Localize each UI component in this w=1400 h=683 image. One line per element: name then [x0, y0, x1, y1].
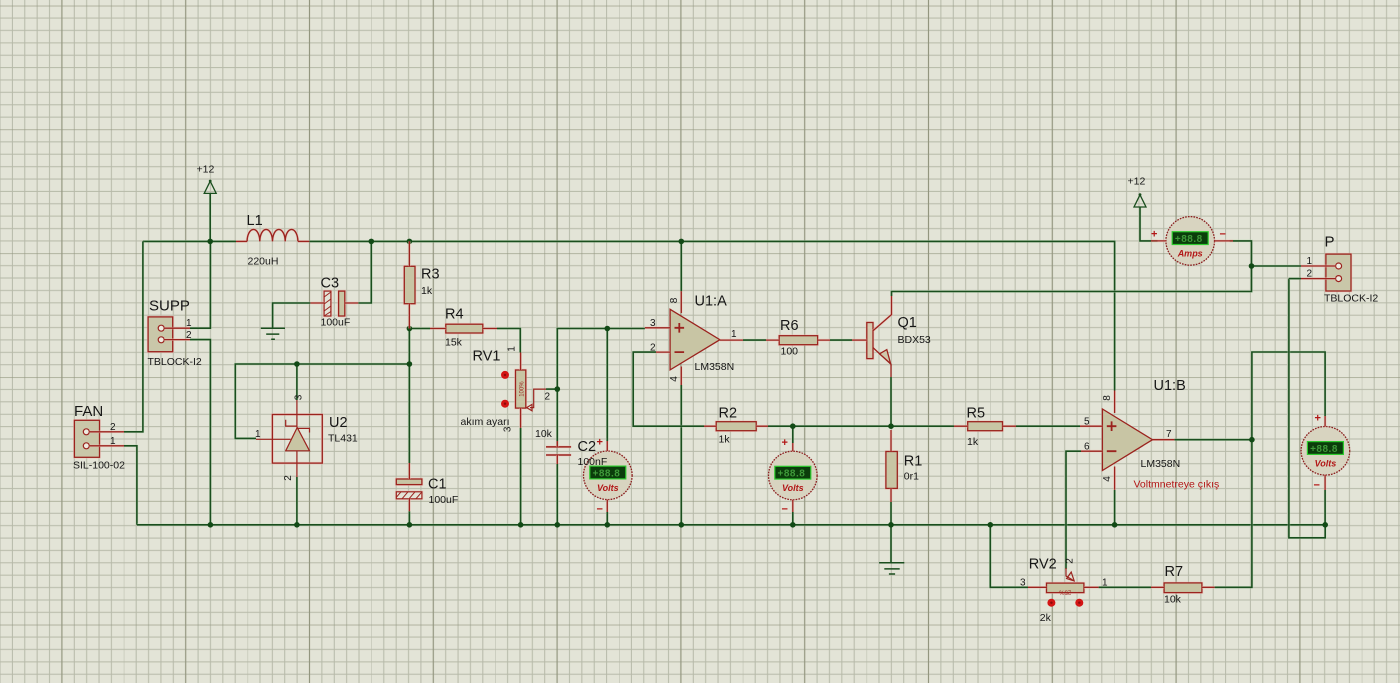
junction rail U1:B pin4	[1112, 522, 1118, 528]
capacitor C1 plain plate	[396, 479, 422, 485]
svg-text:3: 3	[503, 426, 514, 432]
wire: U1:B output to node	[1174, 438, 1252, 441]
capacitor C1 leads	[408, 463, 411, 511]
resistor R1 body	[886, 452, 897, 489]
potentiometer RV1 adjust dots	[501, 371, 509, 408]
wire: RV2 pin 1 to R7	[1099, 586, 1151, 589]
instrument voltmeter VM3 LCD	[1307, 442, 1343, 455]
svg-text:P: P	[1325, 233, 1335, 250]
svg-text:4: 4	[1102, 476, 1113, 482]
svg-text:C2: C2	[578, 439, 597, 455]
wire: RV1 wiper to C2 net	[546, 388, 557, 391]
capacitor C3 plain plate	[339, 291, 345, 316]
wire: left branch down to FAN pin 2	[124, 241, 143, 431]
wire: U1:B pin 4 drop to ground rail	[1113, 490, 1116, 525]
connector P body	[1326, 254, 1351, 291]
svg-text:3: 3	[650, 318, 656, 329]
svg-text:100uF: 100uF	[429, 494, 459, 506]
wire: RV1 pin 3 drop to ground rail	[519, 428, 522, 525]
resistor R4 body	[446, 324, 483, 333]
instrument voltmeter VM1 LCD	[590, 466, 626, 479]
resistor R2 body	[716, 422, 756, 431]
svg-text:FAN: FAN	[74, 403, 103, 420]
junction rail SUPP2	[208, 522, 214, 528]
svg-text:−: −	[1314, 479, 1320, 491]
op-amp U1:A pin leads	[645, 291, 743, 385]
wire: FAN pin 1 to ground rail	[124, 446, 137, 525]
instrument voltmeter VM3 body	[1301, 427, 1350, 476]
junction U1:B output node	[1249, 437, 1255, 443]
wire: Amps minus to P pin 1 node	[1230, 241, 1252, 266]
resistor R7 body	[1164, 583, 1202, 593]
svg-text:TL431: TL431	[328, 432, 358, 444]
svg-text:2k: 2k	[1040, 612, 1052, 624]
svg-text:10k: 10k	[535, 428, 553, 440]
power +12 left symbol	[204, 180, 216, 194]
svg-text:100nF: 100nF	[578, 456, 608, 468]
connector FAN pin leads	[89, 432, 124, 446]
junction R3 top rail	[407, 239, 413, 245]
svg-text:U1:B: U1:B	[1154, 378, 1186, 394]
svg-text:Volts: Volts	[782, 483, 804, 493]
svg-text:SIL-100-02: SIL-100-02	[73, 460, 125, 472]
wire: C3 right lead riser to top rail	[358, 241, 371, 303]
svg-text:+88.8: +88.8	[593, 468, 621, 479]
resistor R7 leads	[1151, 586, 1215, 589]
wire: R6 right to Q1 base	[830, 339, 852, 342]
ground symbol near C3	[261, 328, 285, 339]
resistor R1 leads	[890, 430, 893, 502]
junction rail VM3/P2	[1322, 522, 1328, 528]
svg-text:1k: 1k	[719, 433, 731, 445]
junction rail VM2	[790, 522, 796, 528]
svg-text:RV1: RV1	[473, 349, 501, 365]
junction VM1 riser on pin3 net	[605, 326, 611, 332]
wire: U1:B output up-over to VM3 plus	[1252, 352, 1325, 440]
wire: C1 bottom to ground rail	[408, 511, 411, 525]
junction Q1 emitter/R1/R5	[888, 423, 894, 429]
wire: Q1 emitter drop to shunt node	[890, 377, 893, 426]
svg-text:LM358N: LM358N	[695, 361, 735, 373]
connector FAN pin circles	[83, 429, 89, 449]
capacitor C3 hatched plate	[324, 291, 331, 316]
potentiometer RV2 body	[1047, 583, 1084, 593]
resistor R5 leads	[954, 425, 1016, 428]
wire: SUPP pin 1 riser	[190, 241, 210, 328]
resistor R3 leads	[408, 241, 411, 328]
junction rail C1	[407, 522, 413, 528]
svg-text:R7: R7	[1165, 564, 1184, 580]
svg-text:1: 1	[255, 429, 261, 440]
junction U2 net / C1 column	[407, 361, 413, 367]
svg-text:+: +	[1315, 413, 1321, 425]
svg-text:+: +	[782, 437, 788, 449]
wire: VM2 bottom to ground rail	[791, 512, 794, 525]
capacitor C1 hatched plate	[396, 492, 422, 499]
wire: +12 right stem to Amps plus	[1140, 207, 1158, 241]
svg-text:Q1: Q1	[898, 315, 917, 331]
svg-text:3: 3	[294, 394, 305, 400]
svg-text:2: 2	[1065, 558, 1076, 564]
svg-text:1k: 1k	[421, 285, 433, 297]
svg-text:R5: R5	[967, 406, 986, 422]
wire: top rail from L1 to U1:B pin 8 drop	[309, 241, 1114, 390]
connector SUPP pin leads	[164, 328, 190, 339]
resistor R2 leads	[704, 425, 768, 428]
junction rail VM1	[605, 522, 611, 528]
svg-text:−: −	[782, 504, 788, 516]
svg-text:RV2: RV2	[1029, 556, 1057, 572]
wire: U1:A output to R6	[743, 339, 766, 342]
wire: U1:B pin 6 to RV2 wiper	[1066, 451, 1081, 569]
junction RV1 wiper / C2 column	[555, 386, 561, 392]
svg-text:1: 1	[110, 436, 116, 447]
capacitor C3 leads	[310, 302, 358, 305]
svg-text:0r1: 0r1	[904, 470, 919, 482]
resistor R4 leads	[430, 327, 497, 330]
svg-text:100uF: 100uF	[321, 317, 351, 329]
ground symbol below R1	[879, 563, 904, 574]
wire: R5 right to U1:B pin 5	[1016, 425, 1080, 428]
svg-text:Amps: Amps	[1177, 248, 1203, 258]
svg-text:+88.8: +88.8	[1310, 444, 1338, 455]
instrument voltmeter VM2 body	[769, 451, 818, 500]
op-amp U1:A polarity marks	[675, 323, 685, 352]
svg-text:Volts: Volts	[597, 483, 619, 493]
capacitor C2 leads	[556, 441, 559, 464]
regulator U2 box	[272, 415, 322, 464]
potentiometer RV1 wiper arrow	[527, 389, 546, 411]
junction R2/VM2	[790, 423, 796, 429]
inductor L1	[236, 229, 309, 241]
svg-text:10k: 10k	[1164, 593, 1182, 605]
wire: R4 right to RV1 pin 1	[497, 329, 520, 353]
transistor Q1 base bar	[867, 323, 873, 359]
svg-text:2: 2	[110, 422, 116, 433]
svg-text:1: 1	[507, 346, 518, 352]
svg-text:1k: 1k	[967, 436, 979, 448]
junction U2 cathode/ref	[294, 361, 300, 367]
svg-text:2: 2	[186, 330, 192, 341]
wire: P pin 2 lead green part	[1289, 277, 1301, 280]
instrument voltmeter VM2 LCD	[775, 466, 811, 479]
junction rail R1/ground	[888, 522, 894, 528]
svg-text:R4: R4	[445, 306, 464, 322]
svg-text:−: −	[597, 504, 603, 516]
svg-text:Voltmnetreye çıkış: Voltmnetreye çıkış	[1134, 478, 1220, 490]
wire: C2 bottom to ground rail	[556, 464, 559, 525]
wire: U2 ref feedback loop	[235, 364, 297, 438]
potentiometer RV1 leads	[519, 353, 522, 428]
svg-text:TBLOCK-I2: TBLOCK-I2	[148, 356, 202, 368]
svg-text:+: +	[1151, 228, 1157, 240]
voltmeter VM3 terminal leads	[1324, 416, 1327, 490]
wire: node to P pin 1	[1252, 265, 1302, 268]
wire: R4 left lead to R3 net	[409, 327, 430, 330]
wire: R7 right riser to U1:B output node	[1215, 440, 1252, 588]
svg-text:TBLOCK-I2: TBLOCK-I2	[1324, 293, 1378, 305]
wire: C3 left lead to ground	[273, 303, 311, 328]
svg-text:2: 2	[283, 475, 294, 481]
wire: R3 bottom to R4 node	[408, 329, 411, 365]
voltmeter VM1 terminal leads	[606, 441, 609, 512]
svg-text:7: 7	[1166, 429, 1172, 440]
resistor R5 body	[968, 422, 1003, 431]
svg-text:+: +	[597, 437, 603, 449]
op-amp U1:B body	[1102, 409, 1152, 471]
wire: bottom ground rail	[137, 523, 1325, 526]
power +12 right symbol	[1134, 193, 1146, 207]
svg-text:C3: C3	[321, 276, 340, 292]
svg-text:akım ayarı: akım ayarı	[461, 416, 510, 428]
svg-text:L1: L1	[247, 213, 263, 229]
resistor R3 body	[404, 266, 415, 303]
wire: C1 top lead	[408, 364, 411, 463]
resistor R6 leads	[766, 339, 830, 342]
wire: VM1 bottom to ground rail	[606, 512, 609, 525]
wire: +12 symbol stem	[209, 193, 212, 241]
instrument ammeter AM1 body	[1166, 217, 1215, 266]
wire: RV2 pin 3 to ground rail	[990, 525, 1028, 588]
svg-text:−: −	[1220, 229, 1226, 241]
svg-text:25%: 25%	[1059, 588, 1072, 594]
svg-text:U1:A: U1:A	[695, 294, 728, 310]
svg-text:100%: 100%	[520, 381, 526, 397]
connector SUPP body	[148, 317, 173, 352]
wire: C2 net riser and U1:A pin3 feed	[557, 329, 645, 447]
wire: R2 right to VM2 node and R5	[768, 425, 954, 428]
svg-text:1: 1	[1102, 577, 1108, 588]
regulator U2 TL431 symbol	[256, 400, 310, 477]
wire: SUPP pin 2 drop to ground rail	[190, 340, 210, 525]
svg-text:220uH: 220uH	[248, 256, 279, 268]
svg-text:2: 2	[545, 392, 551, 403]
wire: +12 top rail from +12/SUPP node to L1	[143, 240, 236, 243]
svg-text:8: 8	[1102, 395, 1113, 401]
junction +12/L1/SUPP1	[207, 239, 213, 245]
junction U1:A pin8 top rail	[679, 239, 685, 245]
ammeter AM1 terminal leads	[1151, 240, 1233, 243]
svg-text:1: 1	[731, 329, 737, 340]
junction rail RV1 pin3	[518, 522, 524, 528]
transistor Q1 emitter with arrow	[873, 348, 891, 377]
potentiometer RV2 adjust dots	[1047, 599, 1083, 607]
junction rail C2	[555, 522, 561, 528]
svg-text:Volts: Volts	[1315, 458, 1337, 468]
svg-text:SUPP: SUPP	[149, 298, 190, 315]
wire: Q1 collector run to P/Amps node	[892, 266, 1252, 296]
svg-text:100: 100	[781, 346, 799, 358]
wire: VM2 top lead	[791, 426, 794, 443]
svg-text:5: 5	[1084, 416, 1090, 427]
junction rail U2 anode	[294, 522, 300, 528]
svg-text:3: 3	[1020, 577, 1026, 588]
wire: U1:A pin 2 feedback to R2	[633, 352, 704, 426]
junction rail U1:A pin4	[679, 522, 685, 528]
svg-text:R3: R3	[421, 267, 440, 283]
wire: U1:A pin 8 riser to top rail	[680, 241, 683, 291]
op-amp U1:B polarity marks	[1107, 421, 1117, 451]
connector SUPP pin circles	[158, 325, 164, 343]
svg-text:1: 1	[1307, 256, 1313, 267]
svg-text:2: 2	[650, 342, 656, 353]
wire: VM3 minus to ground rail node	[1324, 490, 1327, 525]
voltmeter VM2 terminal leads	[791, 443, 794, 512]
svg-text:8: 8	[669, 297, 680, 303]
junction Amps/P pin1/collector	[1249, 263, 1255, 269]
connector P pin circles	[1336, 263, 1342, 282]
wire: U2 cathode riser	[297, 364, 410, 400]
instrument ammeter AM1 LCD	[1172, 232, 1208, 245]
svg-text:+88.8: +88.8	[1175, 234, 1203, 245]
op-amp U1:A body	[670, 309, 720, 370]
svg-text:C1: C1	[428, 477, 447, 493]
junction R3/R4	[407, 326, 413, 332]
instrument voltmeter VM1 body	[584, 451, 633, 500]
svg-text:R2: R2	[719, 406, 738, 422]
wire: ground rail hook to P pin 2 riser	[1289, 279, 1325, 538]
potentiometer RV1 body	[516, 370, 526, 408]
wire: U1:A pin 4 drop to ground rail	[680, 385, 683, 525]
capacitor C2 plates	[546, 447, 571, 455]
junction rail RV2 drop	[988, 522, 994, 528]
svg-text:LM358N: LM358N	[1141, 458, 1181, 470]
svg-text:15k: 15k	[445, 336, 463, 348]
wire: R1 bottom to ground symbol	[890, 502, 893, 562]
svg-text:+12: +12	[197, 164, 215, 176]
transistor Q1 base lead	[852, 339, 867, 342]
svg-text:R6: R6	[780, 318, 799, 334]
op-amp U1:B pin leads	[1080, 391, 1174, 490]
svg-text:6: 6	[1084, 441, 1090, 452]
svg-text:2: 2	[1307, 268, 1313, 279]
svg-text:R1: R1	[904, 454, 923, 470]
wire: U2 anode drop	[296, 477, 299, 525]
junction C3 top rail	[369, 239, 375, 245]
resistor R6 body	[779, 336, 817, 345]
svg-text:BDX53: BDX53	[898, 334, 931, 346]
wire: voltmeter VM1 top lead drop	[606, 329, 609, 442]
svg-text:1: 1	[186, 318, 192, 329]
potentiometer RV2 leads	[1028, 586, 1099, 589]
connector FAN body	[74, 420, 99, 457]
svg-text:U2: U2	[329, 415, 348, 431]
svg-text:+88.8: +88.8	[778, 469, 806, 480]
svg-text:4: 4	[669, 376, 680, 382]
svg-text:+12: +12	[1128, 176, 1146, 188]
transistor Q1 collector	[873, 296, 892, 331]
potentiometer RV2 wiper arrow	[1066, 568, 1074, 581]
connector P pin leads	[1301, 266, 1336, 279]
